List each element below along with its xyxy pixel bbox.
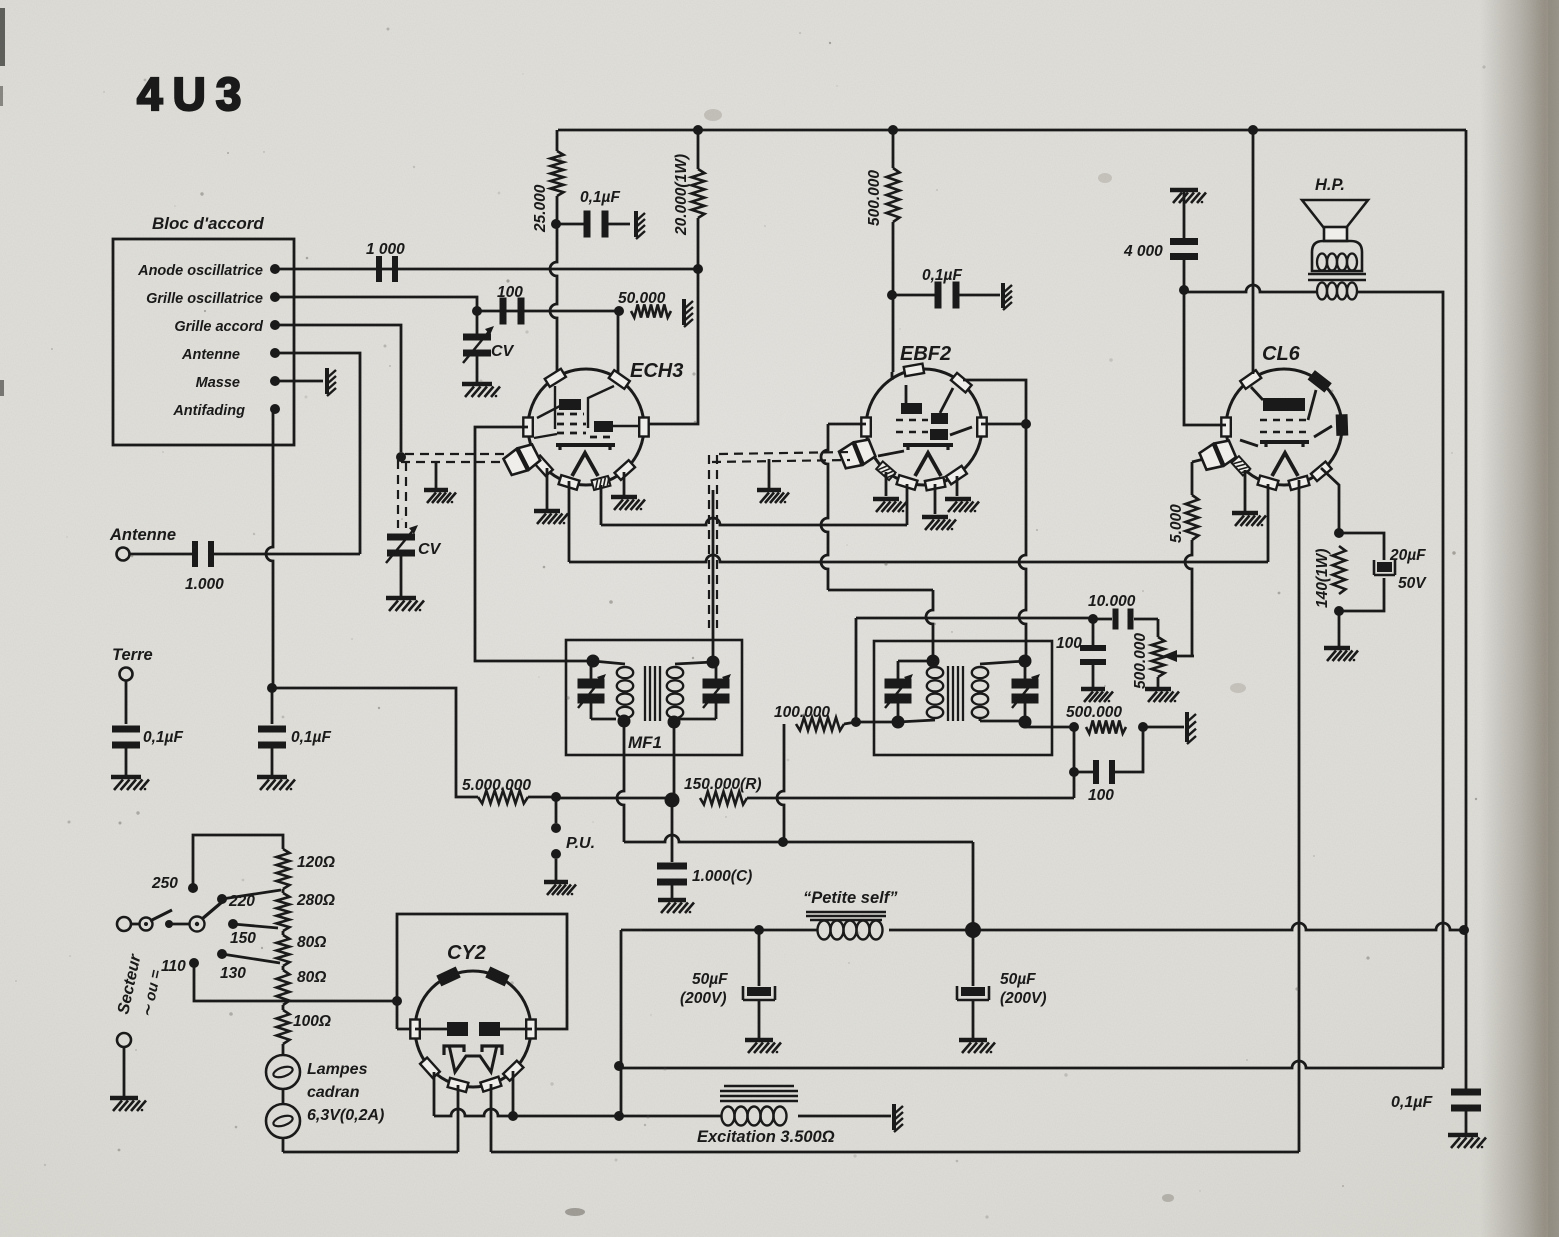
EBF2 heater bbox=[915, 453, 941, 476]
wire CL6 screen feed bbox=[1184, 289, 1226, 425]
svg-text:6,3V(0,2A): 6,3V(0,2A) bbox=[307, 1107, 384, 1124]
svg-text:CY2: CY2 bbox=[447, 942, 486, 964]
capacitor 100 (osc grid) bbox=[500, 298, 507, 325]
svg-text:Anode oscillatrice: Anode oscillatrice bbox=[137, 263, 263, 279]
pin ECH3 anode-right (0) bbox=[639, 418, 649, 437]
svg-text:500.000: 500.000 bbox=[1132, 633, 1149, 689]
selector arm bbox=[202, 902, 222, 919]
ECH3 cathode bbox=[558, 444, 561, 450]
tube CY2 envelope bbox=[415, 971, 531, 1087]
resistor 100.000 bbox=[796, 718, 844, 731]
pin EBF2 right (0) bbox=[977, 418, 987, 437]
wire speaker return bbox=[619, 1061, 1443, 1068]
resistor 20.000 (1W) bbox=[692, 169, 705, 218]
MF2 primary trimmer bbox=[897, 701, 900, 722]
MF1 primary coil bbox=[617, 667, 633, 678]
wire 100.000 to MF2 bbox=[844, 722, 856, 724]
lamp dial 1 bbox=[266, 1055, 300, 1089]
wire lamps to heater line bbox=[282, 1138, 285, 1152]
svg-text:50.000: 50.000 bbox=[618, 290, 666, 307]
ground masse bbox=[325, 368, 329, 394]
capacitor 100 avc bbox=[1080, 645, 1106, 651]
svg-text:EBF2: EBF2 bbox=[900, 343, 951, 365]
node self left cap bbox=[754, 925, 764, 935]
CL6 cathode bbox=[1264, 441, 1267, 447]
wire screen cap link bbox=[892, 294, 936, 297]
resistor 120 ohm bbox=[277, 849, 290, 889]
wire PU stub bbox=[555, 797, 558, 823]
ground 50uF-1 bbox=[745, 1038, 773, 1043]
ground 4.000 bbox=[1170, 188, 1198, 193]
pin CY2 bottom-325 bbox=[503, 1061, 523, 1081]
node CY2 box bbox=[392, 996, 402, 1006]
inductor petite self bbox=[818, 921, 831, 940]
CL6 grid dashes bbox=[1260, 419, 1308, 422]
node antenne bloc bbox=[270, 348, 280, 358]
resistor 5.000.000 bbox=[478, 791, 528, 804]
ground 1.000C bbox=[658, 898, 686, 903]
pin EBF2 bottom-285 bbox=[946, 466, 967, 485]
pin ECH3 bottom-262 bbox=[559, 475, 580, 490]
node self drop a bbox=[614, 1061, 624, 1071]
svg-text:4 000: 4 000 bbox=[1123, 243, 1163, 260]
CL6 anode bar bbox=[1263, 398, 1305, 411]
wire 130 tap bbox=[222, 954, 280, 963]
node MF2 sec bottom bbox=[1019, 716, 1032, 729]
terminal mains bottom bbox=[117, 1033, 131, 1047]
wire EBF2 top feed bbox=[891, 372, 894, 380]
capacitor 1.000 (C) bbox=[657, 863, 687, 870]
pin ECH3 anode-left (180) bbox=[523, 418, 533, 437]
svg-text:80Ω: 80Ω bbox=[297, 969, 326, 986]
wire 50uF-1 stem bbox=[758, 930, 761, 986]
wire 100.000 left bbox=[777, 724, 784, 842]
wire secondary right bbox=[1358, 292, 1443, 1068]
wire CY2 pin2 drop bbox=[457, 1085, 460, 1152]
svg-text:150: 150 bbox=[230, 930, 256, 947]
capacitor 0,1uF antifading bbox=[258, 726, 286, 733]
MF2 core bbox=[947, 666, 949, 721]
wire heater line A bbox=[601, 518, 907, 525]
pin CL6 bottom-262 bbox=[1258, 476, 1279, 490]
pin CY2 top-right filled bbox=[487, 968, 508, 985]
wire detector right bbox=[747, 797, 1074, 800]
wire lamp link bbox=[282, 1089, 285, 1104]
wire 500k to chassis bbox=[1143, 726, 1184, 729]
wire secondary left bbox=[1184, 285, 1316, 292]
node MF2 prim bottom bbox=[892, 716, 905, 729]
capacitor CV accord bbox=[387, 534, 415, 541]
pin CY2 right bbox=[526, 1020, 536, 1039]
wire antenne bloc bbox=[275, 353, 360, 554]
pin ECH3 grid trapezoid bbox=[518, 444, 540, 469]
pin CL6 top-right (52) filled bbox=[1309, 372, 1330, 391]
wire 4.000 stem bbox=[1183, 192, 1186, 238]
node det 500k right bbox=[1138, 722, 1148, 732]
wire 250 feed bbox=[193, 835, 283, 888]
capacitor 4.000 bbox=[1170, 238, 1198, 245]
node PU junction bbox=[551, 792, 561, 802]
pin CL6 bottom-285 bbox=[1289, 476, 1310, 490]
svg-text:Lampes: Lampes bbox=[307, 1061, 368, 1078]
wire mains to switch bbox=[131, 923, 139, 926]
speaker output transformer box bbox=[1312, 241, 1362, 271]
selector pivot bbox=[190, 917, 205, 932]
potentiometer 500.000 bbox=[1152, 637, 1165, 677]
resistor 280 ohm bbox=[282, 889, 285, 893]
tube EBF2 envelope bbox=[866, 369, 982, 485]
wire pot wiper to 5.000 bbox=[1191, 462, 1194, 495]
EBF2 diode bar2 bbox=[930, 429, 948, 440]
wire AVC line bbox=[856, 617, 1093, 620]
ECH3 heater bbox=[572, 453, 598, 476]
wire EBF2 pin305 gnd bbox=[956, 476, 959, 496]
pin CL6 bottom-310 bbox=[1311, 462, 1332, 481]
svg-text:(200V): (200V) bbox=[680, 990, 727, 1007]
svg-text:100Ω: 100Ω bbox=[293, 1013, 331, 1030]
wire CV to ground bbox=[476, 356, 479, 382]
resistor 100 ohm bbox=[282, 1005, 285, 1010]
ground CV osc bbox=[462, 382, 492, 387]
switch contact a bbox=[140, 918, 153, 931]
capacitor 10.000 bbox=[1113, 609, 1119, 630]
svg-text:1.000(C): 1.000(C) bbox=[692, 868, 752, 885]
svg-text:Terre: Terre bbox=[112, 646, 153, 664]
pin ECH3 bottom-305 bbox=[615, 460, 635, 480]
wire 150 tap bbox=[233, 924, 278, 928]
capacitor 50uF-2 (200V) bbox=[957, 986, 989, 1000]
box MF1 bbox=[566, 640, 742, 755]
ECH3 internal links bbox=[554, 386, 556, 429]
node 25.000 / 0,1uF bbox=[551, 219, 561, 229]
node MF1 primary bottom bbox=[618, 715, 631, 728]
CY2 anode bars bbox=[447, 1022, 468, 1036]
box MF2 bbox=[874, 641, 1052, 755]
svg-text:Antenne: Antenne bbox=[109, 526, 176, 544]
svg-text:ECH3: ECH3 bbox=[630, 360, 683, 382]
wire B+ top bus bbox=[558, 129, 1466, 132]
svg-text:80Ω: 80Ω bbox=[297, 934, 326, 951]
wire 140 gnd bbox=[1338, 611, 1341, 646]
MF2 primary coil bbox=[927, 667, 943, 678]
resistor 25.000 bbox=[551, 151, 564, 196]
ground 140 bbox=[1324, 646, 1350, 651]
wire MF2 sec bottom rail bbox=[980, 720, 1025, 723]
ground CV accord bbox=[386, 596, 416, 601]
ground 0,1uF osc bbox=[634, 211, 638, 237]
wire terre bbox=[125, 681, 128, 724]
wire EBF2 plate route bbox=[963, 380, 1026, 424]
svg-text:50µF: 50µF bbox=[1000, 971, 1036, 988]
svg-text:280Ω: 280Ω bbox=[296, 892, 335, 909]
wire EBF2 left pin route bbox=[828, 423, 866, 426]
CY2 heater W bbox=[449, 1045, 497, 1072]
wire 25.000 bottom to ECH3 pin bbox=[550, 196, 557, 372]
ground terre bbox=[111, 775, 141, 780]
wire masse bbox=[275, 380, 323, 383]
node grille accord bbox=[270, 320, 280, 330]
EBF2 diode bar1 bbox=[931, 413, 948, 424]
capacitor 0,1uF (EBF2 screen) bbox=[935, 282, 942, 309]
ground PU bbox=[544, 880, 568, 885]
MF1 secondary trimmer bbox=[715, 662, 718, 681]
EBF2 cathode bbox=[906, 444, 909, 450]
wire antenne input bbox=[130, 553, 192, 556]
wire antifading to 5M bbox=[272, 688, 478, 797]
speaker cone bbox=[1302, 200, 1368, 228]
wire grille accord bbox=[275, 325, 401, 452]
wire MF2 prim bottom rail bbox=[856, 721, 898, 724]
svg-text:H.P.: H.P. bbox=[1315, 176, 1345, 194]
node top bus / CL6 feed bbox=[1248, 125, 1258, 135]
wire cathode line B bbox=[569, 555, 1268, 562]
pin EBF2 top-right (50) bbox=[951, 373, 972, 392]
CL6 heater bbox=[1272, 453, 1298, 476]
MF2 secondary trimmer bbox=[1024, 661, 1027, 681]
capacitor 0,1uF (osc anode) bbox=[584, 211, 591, 238]
wire gang dashed drop MF1 bbox=[708, 455, 710, 628]
wire heater line right bbox=[491, 1151, 1299, 1154]
wire 0,1uF ECH3 link bbox=[556, 223, 585, 226]
svg-text:1 000: 1 000 bbox=[366, 241, 405, 258]
CY2 heater line bbox=[415, 1028, 447, 1031]
ECH3 g2 bar bbox=[594, 421, 613, 432]
wire PU gnd bbox=[555, 859, 558, 880]
ground antifading bbox=[257, 775, 287, 780]
svg-text:140(1W): 140(1W) bbox=[1314, 549, 1331, 608]
svg-text:100: 100 bbox=[497, 284, 523, 301]
svg-text:Antenne: Antenne bbox=[181, 347, 240, 363]
svg-text:50µF: 50µF bbox=[692, 971, 728, 988]
wire MF1 prim bottom drop bbox=[617, 721, 624, 842]
capacitor 0,1uF (output) bbox=[1451, 1089, 1481, 1096]
wire 100 cap link bbox=[477, 310, 619, 313]
excitation core bbox=[720, 1090, 798, 1092]
resistor 140 (1W) bbox=[1333, 546, 1346, 594]
pin CY2 bottom-295 bbox=[480, 1077, 501, 1092]
svg-text:Excitation 3.500Ω: Excitation 3.500Ω bbox=[697, 1128, 835, 1146]
node switch b bbox=[165, 920, 173, 928]
inductor excitation bbox=[722, 1107, 735, 1126]
wire 1.000C gnd bbox=[671, 885, 674, 898]
wire gang dashed to EBF2 bbox=[719, 452, 852, 454]
wire CL6 heater long bbox=[1298, 480, 1301, 1152]
svg-text:cadran: cadran bbox=[307, 1084, 360, 1101]
svg-text:0,1µF: 0,1µF bbox=[143, 729, 183, 746]
EBF2 anode bar bbox=[901, 403, 922, 414]
wire excitation right bbox=[798, 1115, 891, 1118]
wire MF1 sec bottom drop bbox=[673, 722, 676, 800]
svg-text:25.000: 25.000 bbox=[532, 184, 549, 233]
terminal antenne bbox=[117, 548, 130, 561]
wire grille oscillatrice bbox=[275, 297, 477, 311]
wire self line right bbox=[621, 929, 818, 932]
svg-text:500.000: 500.000 bbox=[1066, 704, 1122, 721]
svg-text:150.000(R): 150.000(R) bbox=[684, 776, 762, 793]
resistor 50.000 bbox=[631, 305, 671, 318]
ground gang stub bbox=[435, 462, 438, 488]
wire 10.000 link bbox=[1093, 618, 1112, 621]
node det cap left bbox=[1069, 767, 1079, 777]
ECH3 grid dashes bbox=[557, 413, 584, 416]
resistor 500.000 (EBF2 screen) bbox=[887, 168, 900, 222]
pin CY2 bottom-215 bbox=[420, 1058, 440, 1078]
ground EBF2 mid bbox=[922, 515, 948, 520]
capacitor CV (oscillator) bbox=[463, 334, 491, 341]
svg-text:Grille oscillatrice: Grille oscillatrice bbox=[146, 291, 263, 307]
pin CL6 right (0) filled bbox=[1337, 415, 1347, 434]
node top bus / 500.000 bbox=[888, 125, 898, 135]
MF1 secondary coil bbox=[667, 667, 683, 678]
speaker voice coil bbox=[1324, 227, 1347, 241]
wire det to AF bbox=[1073, 772, 1076, 798]
node 140 bottom bbox=[1334, 606, 1344, 616]
wire ECH3 cathode to B bbox=[568, 481, 571, 562]
node 250 bbox=[188, 883, 198, 893]
node masse bbox=[270, 376, 280, 386]
wire CY2 pin4 drop bbox=[512, 1071, 515, 1116]
resistor 80 ohm b bbox=[282, 966, 285, 970]
node MF1 primary top bbox=[587, 655, 600, 668]
ground EBF2 k bbox=[873, 497, 899, 502]
pin EBF2 grid trapezoid bbox=[855, 440, 876, 465]
svg-text:120Ω: 120Ω bbox=[297, 854, 335, 871]
node detector bbox=[665, 793, 680, 808]
ground 0,1uF screen bbox=[1001, 283, 1005, 308]
terminal terre bbox=[120, 668, 133, 681]
EBF2 grid dashes bbox=[896, 419, 928, 422]
wire 50uF-2 stem bbox=[972, 930, 975, 986]
node MF1 secondary bottom bbox=[668, 716, 681, 729]
wire CY2 pin1 drop bbox=[433, 1072, 436, 1116]
svg-text:Antifading: Antifading bbox=[172, 403, 245, 419]
wire ECH3 heater A bbox=[600, 485, 603, 525]
capacitor 20uF 50V bbox=[1374, 560, 1395, 575]
node top bus / 20.000 bbox=[693, 125, 703, 135]
svg-text:110: 110 bbox=[161, 958, 186, 975]
ground ECH3 k1 bbox=[534, 509, 560, 514]
node grille accord / CV2 bbox=[396, 452, 406, 462]
wire CY2 bottom link bbox=[434, 1109, 619, 1116]
wire excitation left bbox=[619, 1115, 722, 1118]
resistor 500.000 load bbox=[1086, 721, 1126, 734]
wire CL6 pin310 to 140 bbox=[1321, 468, 1339, 530]
MF1 core bbox=[644, 666, 646, 721]
node PU b bbox=[551, 849, 561, 859]
wire CY2 pin3 drop bbox=[490, 1084, 493, 1152]
pin CL6 hatched bbox=[1231, 456, 1250, 476]
svg-text:100.000: 100.000 bbox=[774, 704, 830, 721]
pin EBF2 bottom-258 bbox=[925, 477, 945, 490]
wire switch link bbox=[172, 923, 190, 926]
node right drop / petite-self line bbox=[1459, 925, 1469, 935]
node AVC 10.000 bbox=[1088, 614, 1098, 624]
wire ladder to lamps bbox=[282, 1044, 285, 1055]
svg-text:100: 100 bbox=[1088, 787, 1114, 804]
ground output cap bbox=[1448, 1133, 1478, 1138]
pin ECH3 g-top-right (58) bbox=[609, 370, 630, 389]
ground gang stub2 bbox=[757, 488, 781, 493]
wire CL6 grid link bbox=[1192, 458, 1208, 462]
svg-text:20µF: 20µF bbox=[1389, 547, 1426, 564]
node 130 bbox=[217, 949, 227, 959]
box bloc d'accord bbox=[113, 239, 294, 445]
svg-text:CL6: CL6 bbox=[1262, 343, 1301, 365]
wire 50.000 to ECH3 pin bbox=[617, 311, 620, 377]
ground 50uF-2 bbox=[959, 1038, 987, 1043]
svg-text:130: 130 bbox=[220, 965, 246, 982]
wire antifading drop bbox=[266, 409, 273, 688]
node screen / 0,1uF bbox=[887, 290, 897, 300]
node antifading junction bbox=[267, 683, 277, 693]
CL6 internal links bbox=[1251, 387, 1263, 400]
svg-text:Grille accord: Grille accord bbox=[174, 319, 264, 335]
svg-text:0,1µF: 0,1µF bbox=[580, 189, 620, 206]
ground 100 avc bbox=[1081, 687, 1105, 692]
node antifading bbox=[270, 404, 280, 414]
svg-text:500.000: 500.000 bbox=[866, 170, 883, 226]
wire ECH3 anode drop bbox=[645, 269, 698, 424]
ground 50.000 bbox=[682, 299, 686, 325]
wire AVC drop bbox=[855, 618, 858, 722]
ECH3 anode bar bbox=[559, 399, 581, 410]
speaker primary coil bbox=[1317, 254, 1327, 271]
node MF2 secondary top bbox=[1019, 655, 1032, 668]
terminal mains top bbox=[117, 917, 131, 931]
wire 100 avc bbox=[1092, 619, 1095, 647]
speaker core bbox=[1308, 273, 1366, 276]
wire ECH3 pin305 gnd bbox=[623, 472, 626, 495]
svg-text:5.000: 5.000 bbox=[1168, 504, 1185, 543]
pin CL6 top-left (125) bbox=[1240, 370, 1261, 389]
wire 220 tap bbox=[222, 890, 281, 899]
ground ECH3 pin305 bbox=[611, 495, 637, 500]
svg-text:(200V): (200V) bbox=[1000, 990, 1047, 1007]
svg-text:100: 100 bbox=[1056, 635, 1082, 652]
svg-text:50V: 50V bbox=[1398, 575, 1427, 592]
node MF2 bottom-left bbox=[851, 717, 861, 727]
MF1 primary trimmer bbox=[590, 661, 593, 681]
pin CY2 left bbox=[410, 1020, 420, 1039]
switch blade bbox=[150, 910, 172, 921]
wire output cap to ground bbox=[1465, 1109, 1468, 1133]
node 110 bbox=[189, 958, 199, 968]
pin EBF2 top (100) bbox=[904, 364, 924, 377]
node det 500k left bbox=[1069, 722, 1079, 732]
EBF2 internal links bbox=[905, 385, 908, 403]
svg-text:CV: CV bbox=[491, 343, 515, 360]
wire 20uF branch bbox=[1339, 533, 1384, 560]
ground EBF2 pin305 bbox=[945, 497, 971, 502]
wire EBF2 k gnd bbox=[885, 472, 888, 496]
node osc anode line bbox=[693, 264, 703, 274]
capacitor 1.000 antenne bbox=[192, 541, 198, 567]
wire 50uF-1 gnd bbox=[758, 1000, 761, 1038]
capacitor 100 det bbox=[1093, 760, 1099, 784]
node CY2 pin4 bbox=[508, 1111, 518, 1121]
svg-text:20.000(1W): 20.000(1W) bbox=[673, 154, 690, 236]
svg-text:10.000: 10.000 bbox=[1088, 593, 1136, 610]
svg-text:0,1µF: 0,1µF bbox=[1391, 1094, 1433, 1111]
wire det cap wires bbox=[1074, 771, 1096, 774]
wire mains bottom gnd bbox=[123, 1047, 126, 1096]
wire EBF2 heater A bbox=[906, 484, 909, 525]
tube CL6 envelope bbox=[1226, 369, 1342, 485]
svg-text:Bloc d'accord: Bloc d'accord bbox=[152, 214, 264, 233]
pin EBF2 left (180) bbox=[861, 418, 871, 437]
wire CV top cap bbox=[476, 311, 479, 334]
wire 500.000 bottom bbox=[892, 222, 895, 372]
